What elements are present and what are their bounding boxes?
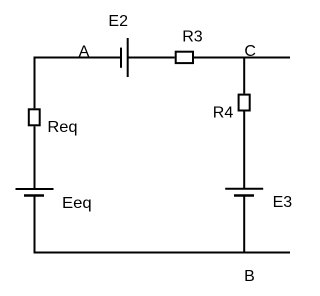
svg-text:B: B bbox=[244, 268, 255, 285]
svg-text:E3: E3 bbox=[273, 194, 293, 211]
svg-text:A: A bbox=[79, 44, 90, 61]
svg-text:C: C bbox=[244, 43, 256, 60]
wire right vertical C to R4 bbox=[243, 58, 245, 94]
wire bottom horizontal bbox=[34, 252, 290, 254]
wire E2 to R3 bbox=[128, 57, 175, 59]
wire R3 to right end through node C bbox=[194, 57, 290, 59]
battery E3 bbox=[225, 189, 292, 211]
wire left vertical upper bbox=[34, 57, 36, 109]
svg-text:R3: R3 bbox=[182, 29, 203, 46]
svg-text:Req: Req bbox=[47, 119, 77, 136]
battery Eeq bbox=[16, 189, 92, 212]
resistor R3 bbox=[176, 29, 203, 64]
wire R4 to E3 bbox=[243, 112, 245, 189]
resistor Req bbox=[29, 109, 78, 136]
svg-text:R4: R4 bbox=[213, 104, 234, 121]
battery E2 bbox=[108, 13, 128, 77]
wire top horizontal segment A (corner to E2) bbox=[34, 57, 121, 59]
svg-text:Eeq: Eeq bbox=[62, 195, 92, 212]
resistor R4 bbox=[213, 95, 250, 122]
wire E3 to bottom bbox=[243, 196, 245, 254]
wire Eeq to bottom bbox=[34, 196, 36, 254]
svg-text:E2: E2 bbox=[108, 13, 128, 30]
wire Req to Eeq bbox=[34, 126, 36, 189]
